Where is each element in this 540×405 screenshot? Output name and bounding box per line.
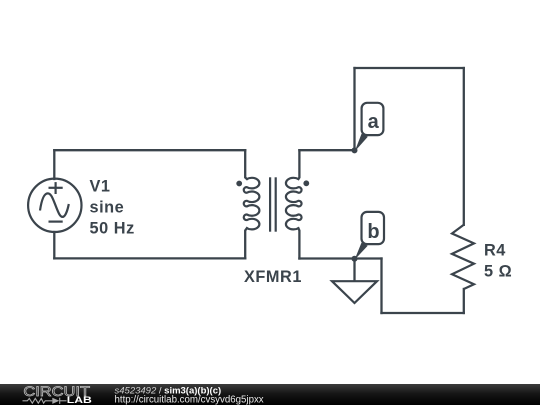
wire resistor bottom lead	[463, 289, 465, 313]
svg-text:XFMR1: XFMR1	[244, 268, 302, 286]
wire left vertical upper (V1 top lead)	[53, 150, 55, 179]
transformer core lines	[270, 177, 276, 231]
ground symbol	[332, 281, 377, 303]
svg-text:5 Ω: 5 Ω	[484, 263, 512, 281]
V1 plus sign	[49, 182, 63, 194]
svg-text:LAB: LAB	[67, 395, 92, 405]
svg-text:b: b	[367, 221, 379, 243]
wire secondary top lead	[298, 150, 299, 179]
node b pointer tail	[355, 243, 368, 260]
node b junction dot	[352, 256, 358, 262]
footer black bar	[0, 384, 540, 405]
wire top-left loop horizontal	[54, 149, 245, 151]
wire bottom-right horizontal	[382, 312, 464, 314]
transformer primary phase dot	[236, 181, 242, 187]
wire primary bottom lead	[245, 228, 247, 258]
node b flag box	[362, 212, 385, 244]
svg-text:http://circuitlab.com/cvsyvd6g: http://circuitlab.com/cvsyvd6g5jpxx	[115, 395, 264, 405]
svg-text:50 Hz: 50 Hz	[90, 220, 135, 238]
wire bottom-left loop horizontal	[54, 257, 245, 259]
wire ground stub	[353, 259, 355, 281]
V1 sine wave	[40, 193, 69, 217]
resistor R4 zigzag	[452, 225, 474, 289]
node a junction dot	[352, 147, 358, 153]
label V1 value text	[90, 178, 135, 238]
wire top-right horizontal	[355, 67, 464, 69]
wire secondary bottom horizontal through node b	[299, 257, 381, 259]
transformer XFMR1 secondary coil	[286, 178, 302, 230]
wire right vertical (resistor top lead)	[463, 68, 465, 225]
svg-text:a: a	[368, 111, 380, 133]
node a flag box	[362, 103, 384, 135]
svg-text:V1: V1	[90, 178, 111, 196]
label R4 value	[484, 242, 512, 281]
V1 minus sign	[49, 221, 63, 223]
wire node a vertical up	[353, 68, 355, 150]
node a pointer tail	[355, 134, 368, 152]
transformer secondary phase dot	[303, 180, 309, 186]
wire left vertical lower (V1 bottom lead)	[53, 232, 55, 258]
svg-text:sine: sine	[90, 199, 125, 217]
wire secondary top horizontal to node a	[299, 149, 354, 151]
wire primary top lead	[245, 150, 247, 179]
svg-text:R4: R4	[484, 242, 506, 260]
voltage source V1 circle	[28, 179, 81, 232]
footer logo resistor-diode squiggle	[23, 398, 67, 404]
transformer XFMR1 primary coil	[244, 178, 260, 230]
wire right-of-b vertical down	[380, 259, 382, 314]
wire secondary bottom lead	[298, 228, 299, 258]
